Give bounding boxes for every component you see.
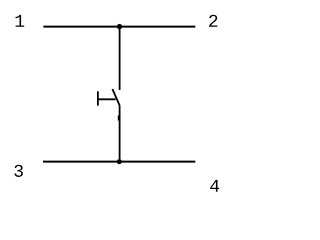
svg-text:2: 2 xyxy=(208,13,219,33)
wire vertical (switch to bottom junction) xyxy=(119,106,121,162)
actuator shaft xyxy=(98,98,116,100)
wire vertical (top junction to switch) xyxy=(119,27,121,90)
junction bottom xyxy=(117,159,122,164)
svg-text:3: 3 xyxy=(13,163,24,183)
switch S1 pushbutton normally-open xyxy=(98,89,120,106)
wire top (node 1 to node 2) xyxy=(43,26,195,28)
junction top xyxy=(117,24,122,29)
switch bottom pin overlap xyxy=(118,116,120,121)
switch lever (movable contact) xyxy=(112,89,119,106)
actuator button cap xyxy=(97,91,99,105)
svg-text:4: 4 xyxy=(209,178,220,198)
svg-text:1: 1 xyxy=(14,13,25,33)
wire bottom (node 3 to node 4) xyxy=(43,161,195,163)
